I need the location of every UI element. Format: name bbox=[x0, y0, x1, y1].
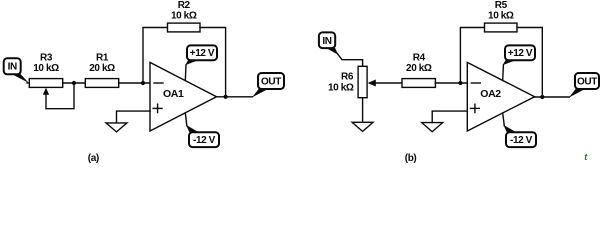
ground (b) bbox=[422, 123, 443, 132]
resistor R4 bbox=[402, 53, 435, 88]
wire feedback right drop (b) bbox=[517, 28, 542, 98]
svg-text:IN: IN bbox=[8, 61, 17, 72]
resistor R2 bbox=[168, 0, 201, 32]
resistor R6 (potentiometer body, vertical) bbox=[328, 66, 367, 97]
svg-text:10 kΩ: 10 kΩ bbox=[488, 11, 514, 22]
wire IN to R6 top bbox=[338, 54, 363, 67]
svg-text:-12 V: -12 V bbox=[193, 135, 216, 146]
svg-text:OUT: OUT bbox=[261, 76, 281, 87]
node junction dot R3/wiper bbox=[72, 81, 76, 85]
resistor R5 bbox=[485, 0, 518, 32]
flag IN (b) bbox=[319, 32, 339, 55]
svg-text:t: t bbox=[584, 152, 588, 162]
resistor R3 (potentiometer body) bbox=[29, 53, 62, 88]
op-amp OA2 bbox=[467, 62, 534, 131]
flag OUT (a) bbox=[252, 73, 284, 97]
wire feedback left riser (b) bbox=[460, 28, 484, 84]
wire R6 bottom to ground bbox=[362, 98, 364, 123]
ground (a) bbox=[106, 123, 127, 132]
flag -12 V (a) bbox=[185, 113, 219, 147]
svg-text:OUT: OUT bbox=[577, 76, 597, 87]
flag -12 V (b) bbox=[503, 113, 536, 147]
svg-text:(b): (b) bbox=[405, 153, 417, 163]
wire op-amp output (a) bbox=[217, 96, 253, 98]
flag +12 V (b) bbox=[503, 45, 536, 80]
wire non-inverting input to ground (b) bbox=[432, 111, 467, 123]
flag OUT (b) bbox=[569, 73, 599, 98]
svg-text:IN: IN bbox=[322, 36, 331, 47]
op-amp OA1 bbox=[150, 62, 217, 131]
node junction dot feedback (a) bbox=[141, 81, 145, 85]
R6 wiper arrow bbox=[368, 80, 402, 87]
flag IN (a) bbox=[4, 58, 29, 83]
svg-text:OA1: OA1 bbox=[163, 88, 184, 100]
svg-text:(a): (a) bbox=[88, 153, 99, 163]
node junction dot feedback (b) bbox=[458, 81, 462, 85]
wire op-amp output (b) bbox=[534, 96, 569, 98]
wire R3 to R1 bbox=[63, 82, 86, 84]
wire non-inverting input to ground (a) bbox=[117, 111, 151, 123]
wire IN to R3 bbox=[27, 82, 30, 84]
svg-text:10 kΩ: 10 kΩ bbox=[328, 83, 354, 94]
svg-text:+12 V: +12 V bbox=[508, 48, 533, 59]
R3 wiper arrow bbox=[43, 88, 49, 109]
wire feedback left riser (a) bbox=[143, 28, 168, 84]
svg-text:10 kΩ: 10 kΩ bbox=[33, 63, 59, 74]
svg-text:R6: R6 bbox=[341, 72, 354, 83]
svg-text:20 kΩ: 20 kΩ bbox=[406, 63, 432, 74]
resistor R1 bbox=[85, 53, 118, 88]
svg-text:-12 V: -12 V bbox=[510, 135, 533, 146]
wire R1 to op-amp inverting input bbox=[119, 82, 150, 84]
wire wiper loop to node bbox=[46, 83, 74, 109]
node junction dot output (a) bbox=[224, 95, 228, 99]
svg-text:10 kΩ: 10 kΩ bbox=[171, 11, 197, 22]
svg-text:OA2: OA2 bbox=[480, 88, 501, 100]
node junction dot output (b) bbox=[540, 95, 544, 99]
wire R4 to op-amp inverting input bbox=[435, 82, 467, 84]
svg-text:+12 V: +12 V bbox=[190, 48, 215, 59]
svg-text:20 kΩ: 20 kΩ bbox=[89, 63, 115, 74]
wire feedback right drop (a) bbox=[200, 28, 226, 97]
flag +12 V (a) bbox=[185, 45, 217, 80]
ground R6 (b) bbox=[352, 122, 373, 131]
